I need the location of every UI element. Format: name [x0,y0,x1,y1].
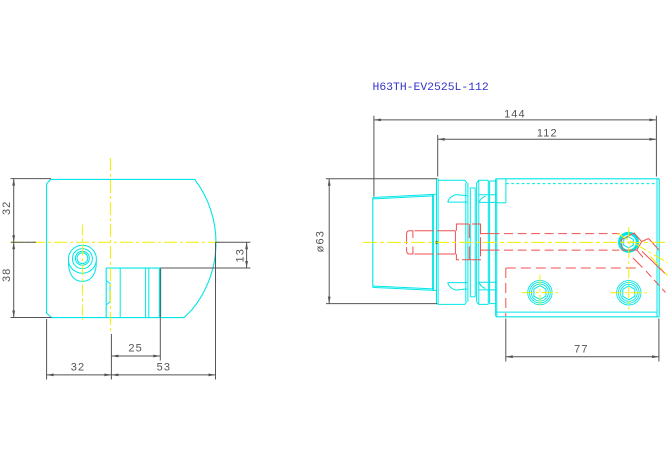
insert clamp screw [620,233,638,251]
hidden tool block outline (red dashed) [506,267,640,269]
dimension 13 (right of left view) [216,241,251,243]
svg-text:77: 77 [574,344,588,356]
svg-text:144: 144 [504,108,526,120]
taper shank [372,198,374,288]
flange outline bottom [438,302,467,305]
square seat slot [106,267,160,269]
dimension 32 / 53 (bottom chain) [47,374,216,376]
svg-text:53: 53 [157,361,171,373]
taper big-end face [432,195,434,291]
insert screw hexagon [624,237,634,248]
svg-text:ø63: ø63 [315,230,327,252]
dimension 112 [438,138,657,140]
bolt hole 2 [617,281,641,305]
clamping collar (red hidden) [456,224,480,260]
flange ridge 2 edges [478,180,480,304]
svg-text:112: 112 [537,128,558,140]
extension lines bottom [46,319,48,380]
dimension 32 (left vertical) [13,179,15,318]
flange left face [436,178,438,304]
right view centerlines [363,241,666,243]
svg-text:13: 13 [234,248,246,262]
svg-text:H63TH-EV2525L-112: H63TH-EV2525L-112 [373,82,489,94]
dimension ø63 [328,179,330,304]
V-groove walls [465,183,467,302]
square shank hidden lines [481,233,491,235]
flange outline top [438,180,467,183]
insert pocket / head (red) [622,233,642,250]
svg-text:32: 32 [71,361,85,373]
counterbored screw hole [68,245,96,273]
svg-text:32: 32 [1,201,13,215]
left view centerlines [10,241,219,243]
left view body outline [47,179,216,317]
dimension 144 [374,119,657,121]
coolant tube (red hidden) [407,231,414,254]
dimension 25 (bottom) [111,355,160,357]
bolt hole 1 [528,280,552,304]
main rectangular body [496,178,660,180]
svg-text:38: 38 [1,268,13,282]
gauge point [435,241,438,244]
svg-text:25: 25 [128,343,142,355]
dimension 77 [506,356,659,358]
gripper groove sails [448,195,468,203]
body front face [495,179,497,317]
slot edge notch [106,281,110,305]
